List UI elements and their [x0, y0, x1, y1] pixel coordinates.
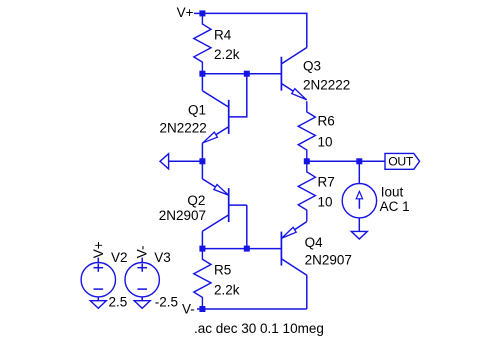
node output junction — [356, 158, 362, 164]
svg-text:Iout: Iout — [381, 185, 404, 200]
voltage source V3 — [125, 263, 159, 297]
wire lower base rail — [202, 248, 281, 250]
svg-text:Q4: Q4 — [305, 235, 324, 250]
svg-text:V-: V- — [134, 245, 149, 258]
svg-text:V+: V+ — [91, 241, 106, 258]
svg-text:2.2k: 2.2k — [214, 283, 240, 298]
ground (V3) — [134, 301, 150, 309]
transistor Q3 — [280, 57, 282, 91]
svg-text:10: 10 — [318, 195, 333, 210]
voltage source V2 — [81, 263, 115, 297]
svg-text:.ac dec 30 0.1 10meg: .ac dec 30 0.1 10meg — [194, 321, 324, 336]
ground (V2) — [90, 301, 106, 309]
wire top rail — [202, 13, 306, 47]
node upper base-tie junction — [244, 71, 250, 77]
svg-text:Q3: Q3 — [303, 58, 321, 73]
svg-text:R7: R7 — [318, 174, 335, 189]
resistor R7 — [298, 161, 315, 221]
node V- junction — [199, 306, 205, 312]
current source Iout — [358, 161, 360, 183]
svg-text:-2.5: -2.5 — [155, 295, 178, 310]
bidirectional port flag (left arrow) — [160, 154, 169, 169]
node mid-right junction — [304, 158, 310, 164]
svg-text:R6: R6 — [318, 113, 335, 128]
wire to OUT port — [359, 160, 385, 162]
resistor R4 — [194, 13, 211, 73]
svg-text:OUT: OUT — [388, 155, 414, 169]
svg-text:R5: R5 — [214, 263, 231, 278]
svg-text:V3: V3 — [154, 250, 171, 265]
svg-text:2N2222: 2N2222 — [160, 121, 207, 136]
svg-text:V-: V- — [182, 302, 195, 317]
transistor Q2 — [228, 188, 230, 222]
port flag OUT — [385, 153, 420, 169]
svg-text:2N2222: 2N2222 — [303, 78, 350, 93]
svg-text:2N2907: 2N2907 — [305, 253, 352, 268]
svg-text:2.5: 2.5 — [109, 295, 128, 310]
resistor R6 — [298, 101, 315, 161]
node V+ junction — [199, 10, 205, 16]
node lower base-tie junction — [244, 246, 250, 252]
svg-text:AC 1: AC 1 — [380, 199, 410, 214]
svg-text:Q2: Q2 — [187, 193, 205, 208]
wire upper base rail — [202, 73, 281, 75]
svg-text:10: 10 — [318, 134, 333, 149]
svg-text:2N2907: 2N2907 — [159, 208, 206, 223]
ground (Iout) — [351, 231, 367, 239]
svg-text:V+: V+ — [177, 5, 194, 20]
transistor Q4 — [280, 232, 282, 266]
resistor R5 — [194, 249, 211, 309]
svg-text:Q1: Q1 — [188, 102, 206, 117]
node lower-left junction — [199, 246, 205, 252]
wire bottom rail — [197, 308, 307, 310]
svg-text:V2: V2 — [111, 250, 128, 265]
node upper-left junction — [199, 71, 205, 77]
svg-text:R4: R4 — [214, 27, 232, 42]
net flag V+ stub — [194, 12, 203, 14]
wire middle rail — [307, 160, 385, 162]
transistor Q1 — [228, 100, 230, 134]
wire base tie to Q1 — [229, 74, 247, 117]
node mid-left junction — [199, 158, 205, 164]
wire to left arrow — [169, 160, 203, 162]
svg-text:2.2k: 2.2k — [214, 47, 240, 62]
